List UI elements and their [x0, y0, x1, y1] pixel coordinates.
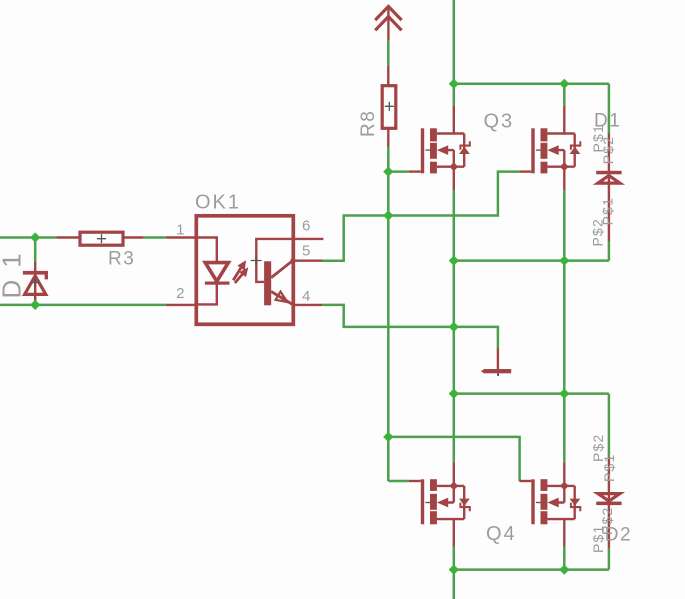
svg-text:4: 4 — [302, 288, 310, 305]
resistor R8 — [387, 65, 389, 147]
wire net IN bottom left — [0, 304, 166, 307]
wire Q3 right drain — [563, 84, 566, 106]
svg-text:R3: R3 — [108, 249, 135, 270]
junction node — [30, 300, 40, 310]
wire below VCC arrow — [387, 40, 390, 66]
svg-text:5: 5 — [302, 243, 310, 260]
wire pin4 to ground net — [322, 305, 498, 349]
junction node — [559, 256, 569, 266]
wire Q4 right source — [563, 547, 566, 570]
svg-text:Q3: Q3 — [484, 110, 515, 132]
OK1 pin 2 wire — [166, 304, 198, 306]
supply VCC arrow — [375, 6, 401, 30]
svg-text:P$1: P$1 — [601, 453, 617, 482]
wire output column right — [563, 190, 566, 463]
OK1 pin 5 wire — [292, 260, 322, 262]
op-amp OK1 optocoupler box — [196, 216, 293, 324]
svg-text:Q4: Q4 — [486, 523, 517, 545]
wire output column left — [453, 190, 456, 463]
wire pin5 to gates net — [322, 172, 519, 261]
wire gate Q3 left — [388, 170, 409, 173]
junction node — [383, 432, 393, 442]
resistor R3 — [56, 236, 143, 238]
junction node — [449, 256, 459, 266]
svg-text:2: 2 — [176, 285, 184, 302]
svg-text:OK1: OK1 — [195, 192, 241, 214]
wire net IN top left — [0, 236, 56, 239]
junction node — [449, 322, 459, 332]
OK1 LED light arrow 1 — [233, 268, 241, 280]
svg-text:R8: R8 — [358, 110, 379, 137]
svg-text:P$2: P$2 — [590, 218, 606, 247]
svg-text:P$2: P$2 — [600, 136, 616, 165]
wire D1 branch — [34, 238, 37, 263]
OK1 pin 4 wire — [292, 304, 322, 306]
transistor Q4 left MOSFET — [409, 463, 471, 547]
junction node — [449, 389, 459, 399]
junction node — [559, 389, 569, 399]
wire bottom column — [453, 547, 456, 599]
wire top rail — [454, 84, 609, 134]
junction node — [559, 565, 569, 575]
OK1 pin 1 wire — [166, 236, 198, 238]
wire gate column x388 — [387, 147, 390, 481]
svg-text:6: 6 — [302, 217, 310, 234]
svg-text:1: 1 — [176, 221, 184, 238]
transistor Q3 left MOSFET — [409, 106, 471, 190]
OK1 internal LED — [198, 238, 217, 305]
diode D1 left (zener) — [34, 262, 36, 303]
svg-text:P$1: P$1 — [590, 524, 606, 553]
junction node — [559, 79, 569, 89]
junction node — [449, 79, 459, 89]
wire drain column top — [453, 0, 456, 106]
wire output rail to D1 — [454, 241, 609, 261]
junction node — [383, 210, 393, 220]
diode D1 right — [608, 134, 610, 242]
wire lower rail to D2 — [454, 394, 609, 457]
OK1 LED light arrow 2 — [235, 274, 243, 283]
svg-text:D1: D1 — [0, 241, 27, 298]
wire gate Q4 left — [388, 480, 409, 483]
transistor Q4 right MOSFET — [519, 463, 581, 547]
OK1 phototransistor — [256, 239, 292, 282]
junction node — [383, 167, 393, 177]
OK1 pin 6 wire — [292, 238, 323, 240]
wire gate Q4 net — [388, 437, 519, 481]
junction node — [449, 565, 459, 575]
diode D2 — [608, 457, 610, 548]
wire between R3 and OK1 — [143, 236, 166, 239]
junction node — [30, 232, 40, 242]
wire bottom rail — [454, 548, 609, 570]
ground — [497, 349, 499, 370]
transistor Q3 right MOSFET — [519, 106, 581, 190]
